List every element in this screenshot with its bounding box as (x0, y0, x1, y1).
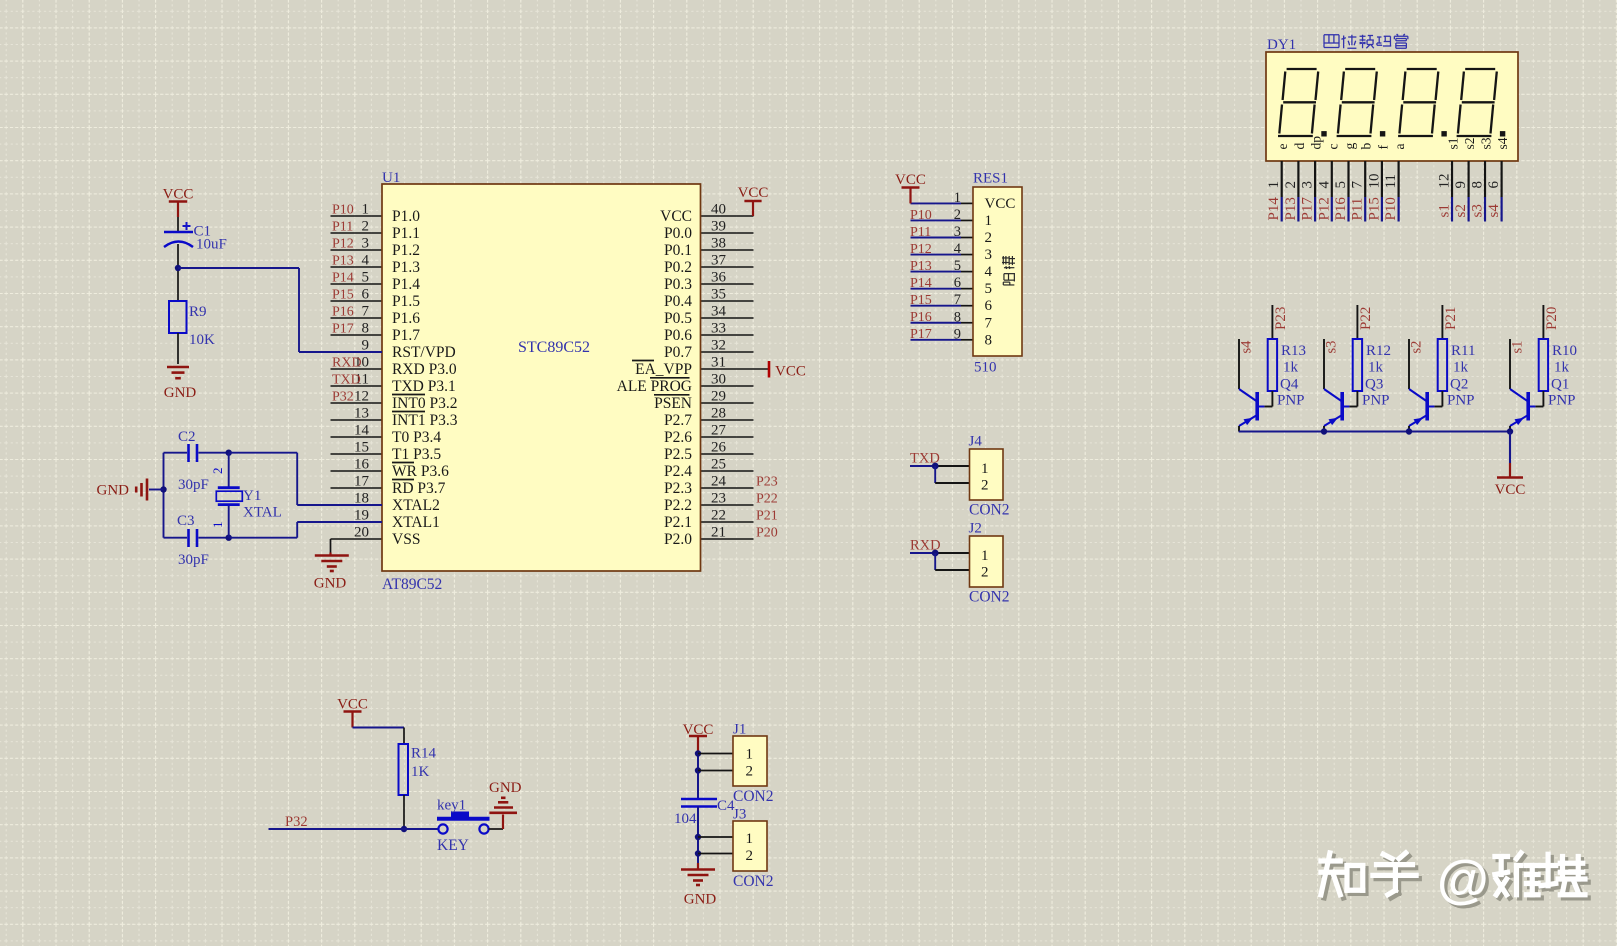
svg-text:P15: P15 (1366, 197, 1382, 220)
svg-text:P11: P11 (910, 225, 931, 240)
svg-text:P15: P15 (332, 288, 354, 303)
svg-text:16: 16 (354, 457, 370, 473)
svg-text:T1 P3.5: T1 P3.5 (392, 446, 441, 463)
svg-text:6: 6 (1486, 181, 1502, 189)
svg-text:P12: P12 (332, 237, 354, 252)
svg-text:10K: 10K (189, 332, 215, 348)
svg-text:VCC: VCC (163, 187, 194, 203)
svg-text:36: 36 (711, 270, 727, 286)
svg-text:30pF: 30pF (178, 552, 209, 568)
svg-text:510: 510 (974, 360, 997, 376)
svg-text:8: 8 (985, 332, 993, 348)
svg-text:WR P3.6: WR P3.6 (392, 463, 449, 480)
svg-text:CON2: CON2 (733, 788, 773, 805)
svg-text:P2.3: P2.3 (664, 480, 692, 497)
svg-text:CON2: CON2 (969, 502, 1009, 519)
svg-text:P22: P22 (756, 492, 778, 507)
svg-text:GND: GND (489, 780, 522, 796)
svg-text:6: 6 (985, 298, 993, 314)
svg-text:5: 5 (954, 258, 961, 274)
svg-text:STC89C52: STC89C52 (518, 339, 590, 356)
svg-text:P13: P13 (1283, 197, 1299, 220)
svg-text:U1: U1 (382, 170, 400, 186)
svg-text:P20: P20 (756, 526, 778, 541)
svg-text:22: 22 (711, 508, 726, 524)
svg-text:RXD P3.0: RXD P3.0 (392, 361, 457, 378)
svg-text:d: d (1292, 143, 1307, 150)
svg-text:s1: s1 (1509, 341, 1525, 354)
svg-text:TXD: TXD (910, 451, 940, 467)
svg-text:R10: R10 (1552, 343, 1577, 359)
svg-text:14: 14 (354, 423, 370, 439)
svg-text:f: f (1375, 145, 1390, 150)
svg-text:J1: J1 (733, 722, 746, 738)
svg-text:a: a (1392, 144, 1407, 150)
svg-text:P1.4: P1.4 (392, 276, 420, 293)
svg-text:c: c (1325, 144, 1340, 150)
svg-text:P0.1: P0.1 (664, 242, 692, 259)
svg-text:s4: s4 (1486, 204, 1502, 218)
svg-text:PNP: PNP (1548, 393, 1576, 409)
svg-text:2: 2 (954, 207, 961, 223)
svg-text:P12: P12 (1316, 197, 1332, 220)
svg-text:3: 3 (954, 224, 961, 240)
svg-text:TXD: TXD (332, 373, 361, 388)
svg-text:P12: P12 (910, 242, 932, 257)
svg-text:R11: R11 (1451, 343, 1475, 359)
svg-text:T0 P3.4: T0 P3.4 (392, 429, 441, 446)
svg-text:CON2: CON2 (969, 589, 1009, 606)
svg-text:104: 104 (674, 811, 697, 827)
svg-text:1: 1 (981, 461, 989, 477)
svg-text:P2.4: P2.4 (664, 463, 692, 480)
svg-text:25: 25 (711, 457, 726, 473)
svg-text:6: 6 (954, 275, 961, 291)
svg-text:b: b (1359, 143, 1374, 150)
svg-text:P14: P14 (1266, 197, 1282, 221)
svg-text:J4: J4 (969, 434, 983, 450)
svg-text:s2: s2 (1453, 204, 1469, 217)
svg-text:Q4: Q4 (1280, 377, 1299, 393)
svg-text:s2: s2 (1408, 341, 1424, 354)
svg-text:7: 7 (362, 304, 370, 320)
svg-text:P21: P21 (756, 509, 778, 524)
svg-text:P0.5: P0.5 (664, 310, 692, 327)
svg-text:30: 30 (711, 372, 726, 388)
svg-text:37: 37 (711, 253, 727, 269)
svg-text:KEY: KEY (437, 837, 469, 854)
svg-text:P0.4: P0.4 (664, 293, 692, 310)
svg-text:e: e (1275, 144, 1290, 150)
svg-text:40: 40 (711, 202, 726, 218)
svg-text:26: 26 (711, 440, 727, 456)
svg-text:28: 28 (711, 406, 726, 422)
svg-text:TXD P3.1: TXD P3.1 (392, 378, 456, 395)
svg-text:3: 3 (362, 236, 370, 252)
svg-text:P32: P32 (332, 390, 354, 405)
svg-text:32: 32 (711, 338, 726, 354)
svg-text:s1: s1 (1437, 204, 1453, 217)
svg-text:P1.7: P1.7 (392, 327, 420, 344)
svg-text:2: 2 (746, 764, 754, 780)
svg-text:J2: J2 (969, 521, 982, 537)
svg-text:P16: P16 (332, 305, 354, 320)
svg-text:VCC: VCC (1495, 482, 1526, 498)
svg-text:VSS: VSS (392, 531, 420, 548)
svg-text:P1.5: P1.5 (392, 293, 420, 310)
svg-text:1: 1 (210, 522, 225, 529)
svg-text:GND: GND (684, 892, 717, 908)
svg-text:P2.6: P2.6 (664, 429, 692, 446)
svg-text:P2.7: P2.7 (664, 412, 692, 429)
svg-text:P0.0: P0.0 (664, 225, 692, 242)
svg-text:PSEN: PSEN (654, 395, 692, 412)
svg-text:INT1 P3.3: INT1 P3.3 (392, 412, 458, 429)
svg-text:4: 4 (1316, 181, 1332, 189)
svg-text:27: 27 (711, 423, 727, 439)
svg-text:1: 1 (954, 190, 961, 206)
svg-text:P1.3: P1.3 (392, 259, 420, 276)
svg-text:Q2: Q2 (1450, 377, 1468, 393)
svg-text:P2.2: P2.2 (664, 497, 692, 514)
svg-text:RD P3.7: RD P3.7 (392, 480, 446, 497)
svg-text:g: g (1342, 143, 1357, 150)
svg-text:35: 35 (711, 287, 726, 303)
svg-text:RXD: RXD (332, 356, 362, 371)
svg-text:2: 2 (746, 848, 754, 864)
svg-text:13: 13 (354, 406, 369, 422)
svg-text:P10: P10 (1383, 197, 1399, 220)
svg-text:P15: P15 (910, 293, 932, 308)
svg-text:7: 7 (954, 292, 961, 308)
svg-text:VCC: VCC (775, 364, 806, 380)
svg-text:10: 10 (1366, 174, 1382, 189)
svg-text:5: 5 (362, 270, 370, 286)
svg-text:P17: P17 (1300, 197, 1316, 221)
svg-text:P0.3: P0.3 (664, 276, 692, 293)
svg-text:R9: R9 (189, 304, 207, 320)
svg-text:EA_VPP: EA_VPP (635, 361, 692, 378)
svg-text:2: 2 (985, 230, 993, 246)
svg-text:17: 17 (354, 474, 370, 490)
svg-text:6: 6 (362, 287, 370, 303)
svg-text:s3: s3 (1323, 341, 1339, 354)
svg-text:Q3: Q3 (1365, 377, 1383, 393)
svg-text:1k: 1k (1554, 360, 1570, 376)
svg-text:2: 2 (981, 565, 989, 581)
svg-text:P13: P13 (332, 254, 354, 269)
svg-text:P1.2: P1.2 (392, 242, 420, 259)
svg-text:P0.6: P0.6 (664, 327, 692, 344)
svg-text:4: 4 (362, 253, 370, 269)
svg-text:VCC: VCC (895, 172, 926, 188)
svg-text:31: 31 (711, 355, 726, 371)
svg-text:XTAL1: XTAL1 (392, 514, 440, 531)
svg-text:key1: key1 (437, 798, 466, 814)
svg-text:1: 1 (362, 202, 370, 218)
svg-text:P17: P17 (332, 322, 354, 337)
svg-text:10uF: 10uF (196, 237, 227, 253)
svg-text:Q1: Q1 (1551, 377, 1569, 393)
svg-text:4: 4 (954, 241, 962, 257)
svg-text:34: 34 (711, 304, 727, 320)
svg-text:C3: C3 (177, 513, 195, 529)
svg-text:XTAL: XTAL (243, 505, 282, 521)
svg-text:P23: P23 (1273, 307, 1289, 330)
svg-text:J3: J3 (733, 807, 746, 823)
svg-text:1K: 1K (411, 764, 430, 780)
svg-text:5: 5 (985, 281, 993, 297)
svg-text:1k: 1k (1453, 360, 1469, 376)
svg-text:7: 7 (1350, 181, 1366, 189)
svg-text:GND: GND (164, 385, 197, 401)
svg-text:12: 12 (354, 389, 369, 405)
svg-text:s3: s3 (1479, 137, 1494, 149)
svg-text:2: 2 (362, 219, 370, 235)
svg-text:P16: P16 (1333, 197, 1349, 221)
svg-text:3: 3 (985, 247, 993, 263)
svg-text:R12: R12 (1366, 343, 1391, 359)
svg-text:RXD: RXD (910, 538, 941, 554)
svg-text:PNP: PNP (1277, 393, 1305, 409)
svg-text:4: 4 (985, 264, 993, 280)
svg-text:2: 2 (1283, 181, 1299, 189)
svg-text:s1: s1 (1446, 137, 1461, 149)
svg-text:30pF: 30pF (178, 477, 209, 493)
svg-text:VCC: VCC (660, 208, 692, 225)
svg-text:INT0 P3.2: INT0 P3.2 (392, 395, 457, 412)
svg-text:33: 33 (711, 321, 726, 337)
svg-text:R13: R13 (1281, 343, 1306, 359)
svg-text:P23: P23 (756, 475, 778, 490)
svg-text:P2.5: P2.5 (664, 446, 692, 463)
svg-text:24: 24 (711, 474, 727, 490)
svg-text:20: 20 (354, 525, 369, 541)
svg-text:8: 8 (362, 321, 370, 337)
svg-text:VCC: VCC (985, 196, 1016, 212)
svg-text:1: 1 (746, 831, 754, 847)
svg-text:P2.0: P2.0 (664, 531, 692, 548)
svg-text:P16: P16 (910, 310, 932, 325)
svg-text:PNP: PNP (1362, 393, 1390, 409)
svg-text:s3: s3 (1470, 204, 1486, 217)
svg-text:P13: P13 (910, 259, 932, 274)
svg-text:9: 9 (954, 326, 961, 342)
svg-text:P14: P14 (910, 276, 932, 291)
svg-text:38: 38 (711, 236, 726, 252)
svg-text:7: 7 (985, 315, 993, 331)
svg-text:s4: s4 (1495, 137, 1510, 149)
svg-text:15: 15 (354, 440, 369, 456)
svg-text:dp: dp (1309, 136, 1324, 150)
svg-text:5: 5 (1333, 181, 1349, 189)
svg-text:P10: P10 (332, 203, 354, 218)
svg-text:1k: 1k (1368, 360, 1384, 376)
svg-text:8: 8 (954, 309, 961, 325)
svg-text:@: @ (1437, 850, 1489, 909)
svg-text:39: 39 (711, 219, 726, 235)
svg-text:s4: s4 (1238, 340, 1254, 354)
svg-text:Y1: Y1 (243, 488, 261, 504)
svg-text:2: 2 (981, 478, 989, 494)
svg-text:P10: P10 (910, 208, 932, 223)
svg-text:9: 9 (1453, 181, 1469, 189)
svg-text:P0.2: P0.2 (664, 259, 692, 276)
svg-text:2: 2 (210, 468, 225, 475)
svg-text:GND: GND (97, 483, 130, 499)
svg-text:CON2: CON2 (733, 873, 773, 890)
svg-text:P0.7: P0.7 (664, 344, 692, 361)
svg-text:RES1: RES1 (973, 171, 1008, 187)
svg-text:P17: P17 (910, 327, 932, 342)
svg-text:P11: P11 (1350, 198, 1366, 221)
svg-text:23: 23 (711, 491, 726, 507)
svg-text:21: 21 (711, 525, 726, 541)
svg-text:1: 1 (981, 548, 989, 564)
svg-text:P20: P20 (1544, 307, 1560, 330)
svg-text:C2: C2 (178, 429, 196, 445)
svg-text:PNP: PNP (1447, 393, 1475, 409)
svg-text:XTAL2: XTAL2 (392, 497, 440, 514)
svg-text:P1.6: P1.6 (392, 310, 420, 327)
svg-text:s2: s2 (1462, 137, 1477, 149)
svg-text:DY1: DY1 (1267, 37, 1296, 53)
svg-text:3: 3 (1300, 181, 1316, 189)
svg-text:P32: P32 (285, 814, 308, 830)
svg-text:P1.1: P1.1 (392, 225, 420, 242)
svg-text:RST/VPD: RST/VPD (392, 344, 456, 361)
svg-text:12: 12 (1437, 174, 1453, 189)
svg-text:P1.0: P1.0 (392, 208, 420, 225)
svg-text:VCC: VCC (337, 697, 368, 713)
svg-text:1: 1 (1266, 181, 1282, 189)
svg-text:P22: P22 (1358, 307, 1374, 330)
svg-text:GND: GND (314, 576, 347, 592)
svg-text:11: 11 (1383, 174, 1399, 188)
svg-text:ALE PROG: ALE PROG (617, 378, 692, 395)
svg-text:1k: 1k (1283, 360, 1299, 376)
svg-text:1: 1 (746, 747, 754, 763)
svg-text:1: 1 (985, 213, 993, 229)
svg-text:8: 8 (1470, 181, 1486, 189)
svg-text:VCC: VCC (738, 185, 769, 201)
svg-text:P14: P14 (332, 271, 354, 286)
svg-text:P11: P11 (332, 220, 353, 235)
svg-text:AT89C52: AT89C52 (382, 576, 442, 593)
svg-text:P2.1: P2.1 (664, 514, 692, 531)
svg-text:P21: P21 (1443, 307, 1459, 330)
svg-text:29: 29 (711, 389, 726, 405)
svg-text:R14: R14 (411, 746, 437, 762)
